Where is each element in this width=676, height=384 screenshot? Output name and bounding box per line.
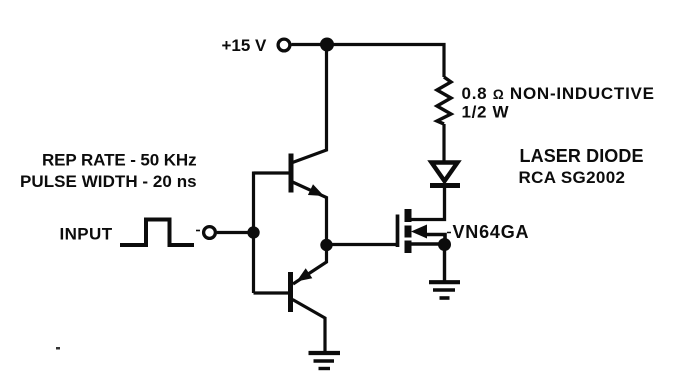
- svg-text:1/2 W: 1/2 W: [462, 103, 510, 122]
- svg-text:INPUT: INPUT: [60, 225, 113, 244]
- input terminal: [196, 227, 215, 239]
- junction driver output node: [320, 239, 332, 251]
- junction top rail: [320, 38, 334, 52]
- wire source to ground: [443, 245, 446, 282]
- node +15V terminal: [222, 36, 290, 55]
- wire base tie vertical: [252, 172, 255, 294]
- svg-text:0.8 Ω NON-INDUCTIVE: 0.8 Ω NON-INDUCTIVE: [462, 84, 655, 103]
- wire from junction down to Q1 collector: [293, 45, 327, 163]
- wire input to node: [217, 231, 254, 234]
- junction MOSFET source node: [438, 238, 451, 251]
- wire top rail: [292, 45, 445, 78]
- svg-text:LASER DIODE: LASER DIODE: [520, 146, 644, 166]
- wire diode cathode to MOSFET drain: [409, 187, 445, 220]
- ground under Q2: [309, 353, 341, 369]
- svg-text:RCA SG2002: RCA SG2002: [519, 168, 626, 187]
- transistor Q3 MOSFET VN64GA: [398, 209, 446, 253]
- laser diode D1: [430, 163, 460, 186]
- wire resistor to diode: [442, 124, 445, 161]
- svg-text:+15 V: +15 V: [222, 36, 268, 55]
- speck artifact: [56, 347, 60, 350]
- label VN64GA: [447, 222, 529, 242]
- transistor Q2 PNP: [291, 245, 327, 352]
- input pulse waveform: [120, 220, 194, 246]
- svg-text:PULSE WIDTH - 20 ns: PULSE WIDTH - 20 ns: [20, 172, 197, 191]
- svg-text:VN64GA: VN64GA: [453, 222, 530, 242]
- wire base Q2: [254, 291, 289, 294]
- wire gate from driver output: [327, 243, 399, 246]
- ground under MOSFET: [429, 282, 460, 298]
- transistor Q1 NPN: [291, 154, 327, 245]
- svg-text:REP RATE - 50 KHz: REP RATE - 50 KHz: [42, 151, 196, 170]
- junction input node: [247, 226, 259, 238]
- wire base Q1: [254, 171, 289, 174]
- resistor R1 0.8 ohm: [437, 77, 451, 124]
